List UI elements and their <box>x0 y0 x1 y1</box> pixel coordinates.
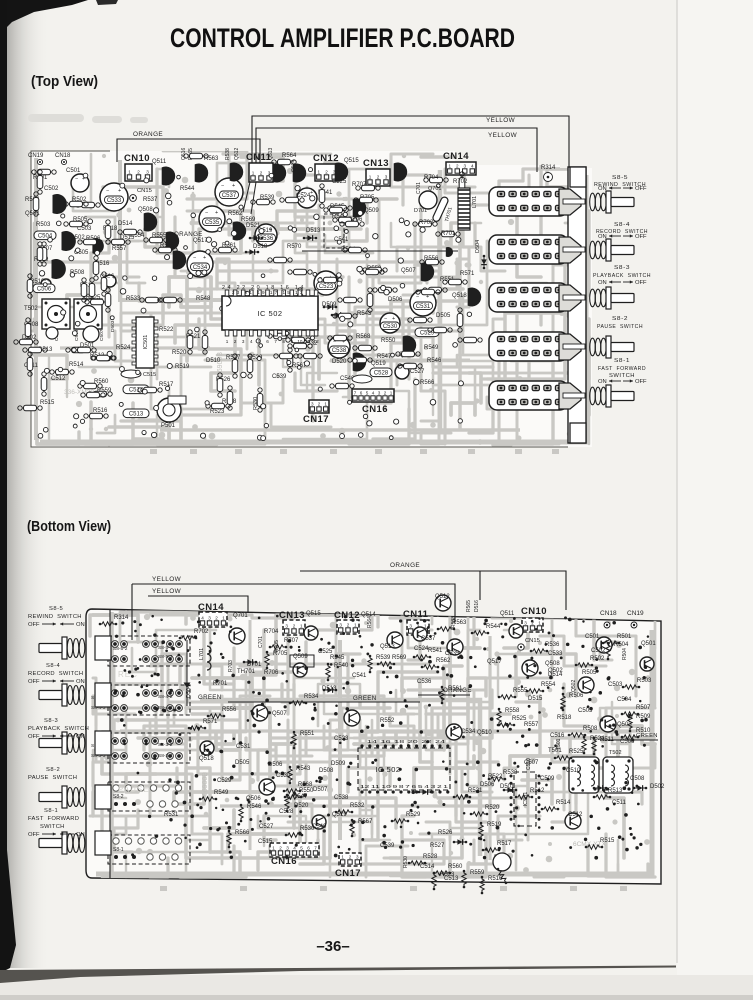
svg-text:C506: C506 <box>37 287 52 293</box>
svg-text:7: 7 <box>274 339 277 344</box>
svg-text:S8-4-2: S8-4-2 <box>158 694 173 700</box>
svg-text:C531: C531 <box>416 304 431 310</box>
svg-text:C529: C529 <box>217 778 232 784</box>
svg-text:CN15: CN15 <box>525 638 540 644</box>
svg-text:Q515: Q515 <box>344 158 359 164</box>
svg-text:CN14: CN14 <box>443 151 469 162</box>
svg-text:ON: ON <box>598 280 607 286</box>
svg-text:Q701: Q701 <box>428 186 441 192</box>
svg-text:R530: R530 <box>300 826 315 832</box>
svg-text:1: 1 <box>390 390 393 395</box>
svg-text:L701: L701 <box>199 648 205 660</box>
svg-text:R567: R567 <box>358 819 373 825</box>
svg-text:OFF: OFF <box>28 734 40 740</box>
svg-text:C538: C538 <box>332 348 347 354</box>
svg-text:C527: C527 <box>410 369 425 375</box>
svg-text:R706: R706 <box>264 670 279 676</box>
svg-text:7: 7 <box>314 845 317 850</box>
svg-text:R539: R539 <box>376 655 391 661</box>
svg-text:+: + <box>112 275 115 281</box>
svg-text:T501: T501 <box>548 748 562 754</box>
svg-text:3: 3 <box>409 623 412 628</box>
svg-text:−: − <box>193 255 196 261</box>
svg-text:−: − <box>205 210 208 216</box>
svg-text:C525: C525 <box>332 179 347 185</box>
svg-text:Q512: Q512 <box>234 148 240 160</box>
svg-text:Q511: Q511 <box>152 159 167 165</box>
svg-text:R534: R534 <box>304 694 319 700</box>
svg-text:S8-3-2: S8-3-2 <box>158 742 173 748</box>
svg-text:R519: R519 <box>175 364 190 370</box>
svg-text:2: 2 <box>279 845 282 850</box>
svg-text:3: 3 <box>385 174 388 179</box>
svg-text:D504: D504 <box>475 240 481 253</box>
svg-text:2: 2 <box>456 163 459 168</box>
svg-text:6: 6 <box>360 390 363 395</box>
svg-text:+: + <box>232 183 235 189</box>
svg-text:−: − <box>106 188 109 194</box>
svg-text:R566: R566 <box>235 830 250 836</box>
svg-text:T502: T502 <box>609 750 622 756</box>
svg-text:P501: P501 <box>161 423 176 429</box>
svg-text:C541: C541 <box>352 673 367 679</box>
svg-text:4: 4 <box>250 339 253 344</box>
svg-text:L701: L701 <box>472 196 478 208</box>
svg-text:CN17: CN17 <box>335 868 361 879</box>
svg-text:R703: R703 <box>228 660 234 672</box>
svg-text:(Bottom View): (Bottom View) <box>27 519 111 535</box>
svg-text:C502: C502 <box>591 648 606 654</box>
svg-text:R540: R540 <box>334 663 349 669</box>
svg-text:4: 4 <box>372 390 375 395</box>
svg-text:CN17: CN17 <box>303 414 329 425</box>
svg-text:FAST FORWARD: FAST FORWARD <box>598 366 646 372</box>
svg-text:1: 1 <box>128 169 131 174</box>
svg-text:R520: R520 <box>172 350 187 356</box>
svg-text:C537: C537 <box>421 636 436 642</box>
svg-text:R562: R562 <box>436 658 451 664</box>
svg-text:R571: R571 <box>460 271 475 277</box>
svg-text:C539: C539 <box>380 843 395 849</box>
svg-text:S8-2: S8-2 <box>612 316 628 322</box>
svg-text:R519: R519 <box>487 822 502 828</box>
svg-text:R514: R514 <box>69 362 84 368</box>
svg-text:D502: D502 <box>650 784 665 790</box>
svg-text:C513: C513 <box>129 412 144 418</box>
svg-text:Q508: Q508 <box>138 207 153 213</box>
svg-text:12: 12 <box>314 339 320 344</box>
svg-text:–36–: –36– <box>316 938 349 955</box>
svg-text:R570: R570 <box>287 244 302 250</box>
svg-text:S8-5: S8-5 <box>612 175 628 181</box>
svg-text:S8-3: S8-3 <box>44 718 58 724</box>
svg-text:C524: C524 <box>414 646 429 652</box>
svg-text:S8-5: S8-5 <box>49 606 63 612</box>
svg-text:R524: R524 <box>590 736 605 742</box>
svg-text:D510: D510 <box>206 358 221 364</box>
svg-text:D516: D516 <box>474 600 480 612</box>
svg-text:2: 2 <box>260 170 263 175</box>
svg-text:2: 2 <box>215 615 218 620</box>
svg-text:1: 1 <box>538 620 541 625</box>
svg-text:T502: T502 <box>24 306 38 312</box>
svg-text:R520: R520 <box>485 805 500 811</box>
svg-text:Q517: Q517 <box>487 659 502 665</box>
svg-text:5: 5 <box>366 390 369 395</box>
svg-text:R551: R551 <box>300 731 315 737</box>
svg-text:R701: R701 <box>441 231 456 237</box>
svg-text:GREEN: GREEN <box>353 695 377 702</box>
svg-text:CN19: CN19 <box>28 153 44 159</box>
svg-text:TH701: TH701 <box>237 669 256 675</box>
svg-text:−: − <box>107 275 110 281</box>
svg-text:R533: R533 <box>126 296 141 302</box>
svg-text:C502: C502 <box>44 186 59 192</box>
svg-text:R557: R557 <box>112 246 127 252</box>
svg-text:D520: D520 <box>332 359 347 365</box>
svg-text:3: 3 <box>208 615 211 620</box>
svg-text:CN18: CN18 <box>55 153 71 159</box>
svg-text:C531: C531 <box>236 744 251 750</box>
svg-text:ORANGE: ORANGE <box>133 131 163 138</box>
svg-text:Q507: Q507 <box>401 268 416 274</box>
svg-text:R541: R541 <box>428 648 443 654</box>
svg-text:OFF: OFF <box>635 186 647 192</box>
svg-text:OFF: OFF <box>28 679 40 685</box>
svg-text:3: 3 <box>356 854 359 859</box>
svg-text:R549: R549 <box>214 790 229 796</box>
svg-text:R528: R528 <box>423 854 438 860</box>
svg-text:CN11: CN11 <box>403 609 429 620</box>
svg-text:C515: C515 <box>258 839 273 845</box>
svg-text:C510: C510 <box>526 758 532 770</box>
svg-text:6: 6 <box>266 339 269 344</box>
svg-text:10: 10 <box>297 339 303 344</box>
svg-text:D506: D506 <box>388 297 403 303</box>
svg-text:R538: R538 <box>225 148 231 160</box>
svg-text:C516: C516 <box>550 733 565 739</box>
svg-text:Q515: Q515 <box>306 611 321 617</box>
svg-text:R557: R557 <box>524 722 539 728</box>
svg-text:9: 9 <box>291 339 294 344</box>
svg-text:Q509: Q509 <box>364 208 379 214</box>
svg-text:PLAYBACK SWITCH: PLAYBACK SWITCH <box>593 273 651 279</box>
svg-text:1: 1 <box>369 174 372 179</box>
svg-text:3: 3 <box>242 339 245 344</box>
svg-text:R550: R550 <box>381 338 396 344</box>
svg-text:C539: C539 <box>272 374 287 380</box>
svg-text:C503: C503 <box>608 682 623 688</box>
svg-text:REC: REC <box>118 670 138 679</box>
svg-text:Q518: Q518 <box>199 756 214 762</box>
svg-text:CONTROL AMPLIFIER P.C.BOARD: CONTROL AMPLIFIER P.C.BOARD <box>170 23 515 53</box>
svg-text:12 11 10 9 8 7 6 5 4 3 2 1: 12 11 10 9 8 7 6 5 4 3 2 1 <box>360 784 449 790</box>
svg-text:R704: R704 <box>424 175 439 181</box>
svg-text:S8-5-3: S8-5-3 <box>158 654 173 660</box>
svg-text:D518: D518 <box>253 244 268 250</box>
svg-text:C523: C523 <box>334 736 349 742</box>
svg-text:R501: R501 <box>617 634 632 640</box>
svg-text:C529: C529 <box>420 331 435 337</box>
svg-text:Q501: Q501 <box>641 641 656 647</box>
svg-text:S8-1: S8-1 <box>44 808 58 814</box>
svg-text:R506: R506 <box>569 693 584 699</box>
svg-text:1: 1 <box>300 623 303 628</box>
svg-text:IC 502: IC 502 <box>257 309 282 318</box>
svg-text:GREEN: GREEN <box>198 694 222 701</box>
svg-text:C514: C514 <box>420 864 435 870</box>
svg-text:S8-3-4: S8-3-4 <box>158 753 173 759</box>
svg-text:R314: R314 <box>541 165 556 171</box>
svg-text:C533: C533 <box>548 651 563 657</box>
svg-text:S8-5-1: S8-5-1 <box>158 645 173 651</box>
svg-text:R549: R549 <box>424 345 439 351</box>
svg-text:D508: D508 <box>319 768 334 774</box>
svg-text:R512: R512 <box>530 788 545 794</box>
svg-text:ON: ON <box>598 234 607 240</box>
svg-text:C513: C513 <box>444 876 459 882</box>
svg-text:7: 7 <box>354 390 357 395</box>
svg-text:R702: R702 <box>453 179 468 185</box>
svg-text:1: 1 <box>354 622 357 627</box>
svg-text:ON: ON <box>76 622 85 628</box>
svg-text:C538: C538 <box>334 795 349 801</box>
svg-text:C523: C523 <box>319 284 334 290</box>
svg-text:−: − <box>221 183 224 189</box>
svg-text:R558: R558 <box>505 708 520 714</box>
svg-text:C512: C512 <box>51 376 66 382</box>
svg-text:R571: R571 <box>203 719 218 725</box>
svg-text:14 16 18 20 22 24: 14 16 18 20 22 24 <box>367 739 446 745</box>
svg-text:C510: C510 <box>566 768 581 774</box>
svg-text:1: 1 <box>272 845 275 850</box>
svg-text:1: 1 <box>222 615 225 620</box>
svg-text:R507: R507 <box>636 705 651 711</box>
svg-text:+: + <box>215 210 218 216</box>
svg-text:CN10: CN10 <box>124 153 150 164</box>
svg-text:S8-1: S8-1 <box>614 358 630 364</box>
svg-text:Q503: Q503 <box>617 722 632 728</box>
svg-text:R505: R505 <box>582 670 597 676</box>
svg-text:R564: R564 <box>367 616 373 628</box>
svg-text:C701: C701 <box>416 182 422 194</box>
svg-text:OFF: OFF <box>635 280 647 286</box>
svg-text:CN13: CN13 <box>363 158 389 169</box>
svg-text:D515: D515 <box>528 696 543 702</box>
svg-text:YELLOW: YELLOW <box>152 588 182 595</box>
svg-text:R538: R538 <box>451 616 457 628</box>
svg-text:23 21 19 17 15 13: 23 21 19 17 15 13 <box>232 290 305 295</box>
svg-text:D505: D505 <box>235 760 250 766</box>
svg-text:C507: C507 <box>99 329 105 341</box>
svg-text:YELLOW: YELLOW <box>488 132 518 139</box>
svg-text:4: 4 <box>201 615 204 620</box>
svg-text:3: 3 <box>463 163 466 168</box>
svg-text:Q502: Q502 <box>571 680 577 692</box>
svg-text:CN18: CN18 <box>600 610 617 617</box>
svg-text:3: 3 <box>146 169 149 174</box>
svg-text:ON: ON <box>76 679 85 685</box>
svg-text:R525: R525 <box>569 749 584 755</box>
svg-text:Q518: Q518 <box>452 293 467 299</box>
svg-text:S8-4: S8-4 <box>614 222 630 228</box>
svg-text:+: + <box>392 316 395 322</box>
svg-text:1: 1 <box>252 170 255 175</box>
svg-text:R701: R701 <box>213 681 228 687</box>
svg-text:8: 8 <box>282 339 285 344</box>
svg-text:IC501: IC501 <box>143 335 149 350</box>
svg-text:C536: C536 <box>417 679 432 685</box>
svg-text:R518: R518 <box>557 715 572 721</box>
svg-text:D513: D513 <box>306 228 321 234</box>
svg-text:R517: R517 <box>497 841 512 847</box>
svg-text:R515: R515 <box>40 400 55 406</box>
svg-text:R544: R544 <box>486 624 501 630</box>
svg-text:RECORD SWITCH: RECORD SWITCH <box>28 671 83 677</box>
svg-text:OFF: OFF <box>635 234 647 240</box>
svg-text:ON: ON <box>598 186 607 192</box>
svg-text:Q513: Q513 <box>268 148 274 160</box>
svg-text:D509: D509 <box>331 761 346 767</box>
svg-text:3: 3 <box>378 390 381 395</box>
svg-text:D514: D514 <box>118 221 133 227</box>
svg-text:R564: R564 <box>282 153 297 159</box>
svg-text:1: 1 <box>341 854 344 859</box>
svg-text:2: 2 <box>377 174 380 179</box>
svg-text:2: 2 <box>349 854 352 859</box>
svg-text:−: − <box>416 294 419 300</box>
svg-text:R314: R314 <box>114 615 129 621</box>
svg-text:PAUSE SWITCH: PAUSE SWITCH <box>597 324 643 330</box>
svg-text:R559: R559 <box>470 870 485 876</box>
svg-text:306900B: 306900B <box>202 772 209 800</box>
svg-text:R548: R548 <box>196 296 211 302</box>
svg-text:(Top View): (Top View) <box>31 74 98 90</box>
svg-text:C701: C701 <box>258 636 264 648</box>
svg-text:−: − <box>75 176 78 182</box>
svg-text:4: 4 <box>471 163 474 168</box>
svg-text:Q511: Q511 <box>500 611 515 617</box>
svg-text:C515: C515 <box>143 372 156 378</box>
svg-text:C535: C535 <box>205 220 220 226</box>
svg-text:C501: C501 <box>585 634 600 640</box>
svg-text:R513: R513 <box>608 788 623 794</box>
svg-text:ON: ON <box>76 734 85 740</box>
svg-text:YELLOW: YELLOW <box>152 576 182 583</box>
svg-text:R532: R532 <box>350 803 365 809</box>
svg-text:C527: C527 <box>259 824 274 830</box>
svg-text:R569: R569 <box>392 655 407 661</box>
svg-text:Q510: Q510 <box>477 730 492 736</box>
svg-text:11: 11 <box>306 339 311 344</box>
svg-text:S8-2: S8-2 <box>46 767 60 773</box>
svg-text:R546: R546 <box>247 804 262 810</box>
svg-text:R525: R525 <box>512 716 527 722</box>
svg-text:R522: R522 <box>159 327 174 333</box>
svg-text:CN15: CN15 <box>137 188 152 194</box>
svg-text:Q507: Q507 <box>272 711 287 717</box>
svg-text:C512: C512 <box>568 812 583 818</box>
svg-text:+: + <box>310 190 313 196</box>
svg-text:3: 3 <box>339 622 342 627</box>
svg-text:R703: R703 <box>419 220 434 226</box>
svg-text:R707: R707 <box>284 638 299 644</box>
svg-text:ON: ON <box>598 379 607 385</box>
svg-text:FAST FORWARD: FAST FORWARD <box>28 816 79 822</box>
svg-text:R552: R552 <box>380 718 395 724</box>
svg-text:2: 2 <box>347 622 350 627</box>
svg-text:CN19: CN19 <box>627 610 644 617</box>
svg-text:OFF: OFF <box>28 622 40 628</box>
svg-text:CN10: CN10 <box>521 606 547 617</box>
svg-text:R503: R503 <box>36 222 51 228</box>
svg-text:OFF: OFF <box>635 379 647 385</box>
svg-text:C530: C530 <box>383 324 398 330</box>
svg-text:D503: D503 <box>110 320 116 332</box>
svg-text:S8-1: S8-1 <box>113 847 124 853</box>
svg-text:R523: R523 <box>210 409 225 415</box>
svg-text:R537: R537 <box>143 197 158 203</box>
svg-text:C528: C528 <box>374 371 389 377</box>
svg-text:OFF: OFF <box>28 832 40 838</box>
svg-text:2: 2 <box>325 169 328 174</box>
svg-text:D505: D505 <box>436 313 451 319</box>
svg-text:S8-3: S8-3 <box>614 265 630 271</box>
svg-text:R556: R556 <box>222 707 237 713</box>
svg-text:R547: R547 <box>377 354 392 360</box>
svg-text:PLAYBACK SWITCH: PLAYBACK SWITCH <box>28 726 89 732</box>
svg-text:R521: R521 <box>468 788 483 794</box>
svg-text:+: + <box>47 278 50 284</box>
svg-text:PAUSE: PAUSE <box>118 785 150 794</box>
svg-text:R546: R546 <box>427 358 442 364</box>
svg-text:R514: R514 <box>556 800 571 806</box>
svg-text:2: 2 <box>234 339 237 344</box>
svg-text:1: 1 <box>324 401 327 406</box>
svg-text:R527: R527 <box>430 843 445 849</box>
svg-text:R563: R563 <box>204 156 219 162</box>
svg-text:R536: R536 <box>545 642 560 648</box>
svg-text:C537: C537 <box>222 193 237 199</box>
svg-text:S8-2: S8-2 <box>113 794 124 800</box>
svg-text:1: 1 <box>424 623 427 628</box>
svg-text:C533: C533 <box>107 198 122 204</box>
svg-text:2: 2 <box>384 390 387 395</box>
svg-text:R529: R529 <box>406 812 421 818</box>
svg-text:R524: R524 <box>116 345 131 351</box>
svg-text:IC 502: IC 502 <box>375 765 400 774</box>
svg-text:R504: R504 <box>622 648 628 660</box>
svg-text:ORANGE: ORANGE <box>390 562 420 569</box>
svg-text:SWITCH: SWITCH <box>40 824 65 830</box>
svg-text:R530: R530 <box>403 856 409 868</box>
svg-text:S8-4: S8-4 <box>46 663 61 669</box>
svg-text:REWIND SWITCH: REWIND SWITCH <box>28 614 82 620</box>
svg-text:Q513: Q513 <box>380 644 395 650</box>
svg-text:2: 2 <box>318 401 321 406</box>
svg-text:1: 1 <box>448 163 451 168</box>
svg-text:PAUSE SWITCH: PAUSE SWITCH <box>28 775 77 781</box>
svg-text:YELLOW: YELLOW <box>486 117 516 124</box>
svg-text:R702: R702 <box>194 629 209 635</box>
svg-text:Q512: Q512 <box>435 594 450 600</box>
svg-text:CN12: CN12 <box>313 153 339 164</box>
svg-text:R560: R560 <box>448 864 463 870</box>
svg-text:Q502: Q502 <box>548 668 563 674</box>
svg-text:R526: R526 <box>438 830 453 836</box>
svg-text:6: 6 <box>307 845 310 850</box>
svg-text:C501: C501 <box>66 168 81 174</box>
